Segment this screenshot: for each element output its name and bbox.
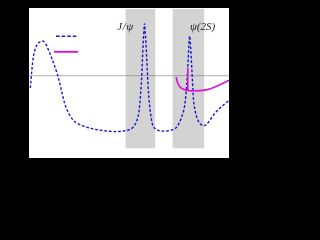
svg-text:J/ψ: J/ψ	[117, 21, 134, 33]
axes plot area (white)	[29, 8, 229, 158]
figure background (black margins)	[0, 0, 229, 183]
blue dashed cross-section curve	[30, 24, 229, 132]
legend dashed blue sample	[56, 35, 77, 37]
shaded band psi(2S) region	[173, 9, 205, 148]
legend magenta sample	[54, 51, 78, 53]
shaded band J/psi region	[126, 9, 156, 148]
magenta exclusive cross-section curve	[176, 77, 229, 91]
magenta resonance spike	[187, 68, 189, 91]
horizontal gray threshold line	[29, 75, 229, 77]
svg-text:ψ(2S): ψ(2S)	[190, 21, 215, 33]
